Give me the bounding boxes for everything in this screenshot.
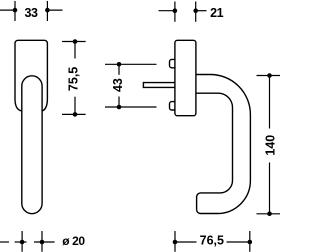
side view: handle lever outline bbox=[196, 75, 251, 214]
dim 43: line upper segment bbox=[118, 64, 120, 75]
svg-text:43: 43 bbox=[111, 78, 125, 92]
dim 140: line lower segment bbox=[269, 163, 271, 214]
dim o20: left cross arm bbox=[15, 241, 27, 243]
dim 43: top dot bbox=[117, 62, 122, 67]
svg-text:75,5: 75,5 bbox=[67, 67, 81, 91]
svg-text:ø 20: ø 20 bbox=[62, 234, 85, 248]
dim 21: line right segment bbox=[194, 10, 207, 12]
dim 140: line upper segment bbox=[269, 76, 271, 129]
dim 75,5: line upper segment bbox=[74, 42, 76, 59]
dim o20: left dot bbox=[20, 240, 25, 245]
dim 21: left dot bbox=[173, 8, 178, 13]
dim 75,5: bottom dot bbox=[73, 112, 78, 117]
dim 21: left tick bbox=[174, 2, 176, 22]
dim 33: right dot bbox=[45, 8, 50, 13]
dim 75,5: top dot bbox=[73, 39, 78, 44]
svg-text:76,5: 76,5 bbox=[200, 234, 224, 248]
dim 21: right dot bbox=[193, 8, 198, 13]
side view: spindle bbox=[143, 83, 175, 88]
dim o20: right cross arm bbox=[34, 241, 55, 243]
dim 76,5: left tick bbox=[174, 231, 176, 252]
front view: grip tube capsule bbox=[22, 76, 42, 214]
dim 140: bottom tick bbox=[257, 213, 281, 215]
dim 33: right tick bbox=[46, 1, 48, 21]
svg-text:33: 33 bbox=[25, 6, 38, 20]
dim 76,5: right tick bbox=[249, 231, 251, 252]
dim 43: top tick bbox=[105, 63, 157, 65]
svg-text:140: 140 bbox=[263, 135, 277, 156]
dim 75,5: top tick bbox=[62, 41, 86, 43]
dim 140: bottom dot bbox=[267, 212, 272, 217]
dim 21: right tick bbox=[195, 2, 197, 22]
side view: bottom screw lug bbox=[170, 102, 175, 110]
dim 75,5: line lower segment bbox=[74, 97, 76, 115]
front view: handle upper wide body bbox=[15, 40, 47, 111]
dim 33: line right segment bbox=[46, 9, 63, 11]
dim 76,5: line left segment bbox=[175, 241, 197, 243]
side view: rose plate bbox=[175, 40, 196, 115]
svg-text:21: 21 bbox=[210, 6, 223, 20]
dim 76,5: right dot bbox=[248, 240, 253, 245]
dim o20: right dot bbox=[40, 240, 45, 245]
dim o20: right tick bbox=[41, 231, 43, 252]
dim o20: left tick bbox=[21, 231, 23, 252]
dim 76,5: left dot bbox=[173, 240, 178, 245]
dim o20: far-left segment bbox=[0, 241, 9, 243]
dim 43: line lower segment bbox=[118, 97, 120, 108]
dim 21: line left segment bbox=[159, 10, 177, 12]
dim 33: left tick bbox=[14, 1, 16, 21]
dim 75,5: bottom tick bbox=[62, 113, 86, 115]
dim 140: top dot bbox=[267, 73, 272, 78]
dim 43: bottom tick bbox=[105, 106, 157, 108]
side view: top screw lug bbox=[170, 59, 175, 67]
dim 76,5: line right segment bbox=[227, 241, 250, 243]
dim 140: top tick bbox=[257, 75, 281, 77]
dim 33: line left segment bbox=[0, 9, 17, 11]
dim 43: bottom dot bbox=[117, 105, 122, 110]
dim 33: left dot bbox=[13, 8, 18, 13]
